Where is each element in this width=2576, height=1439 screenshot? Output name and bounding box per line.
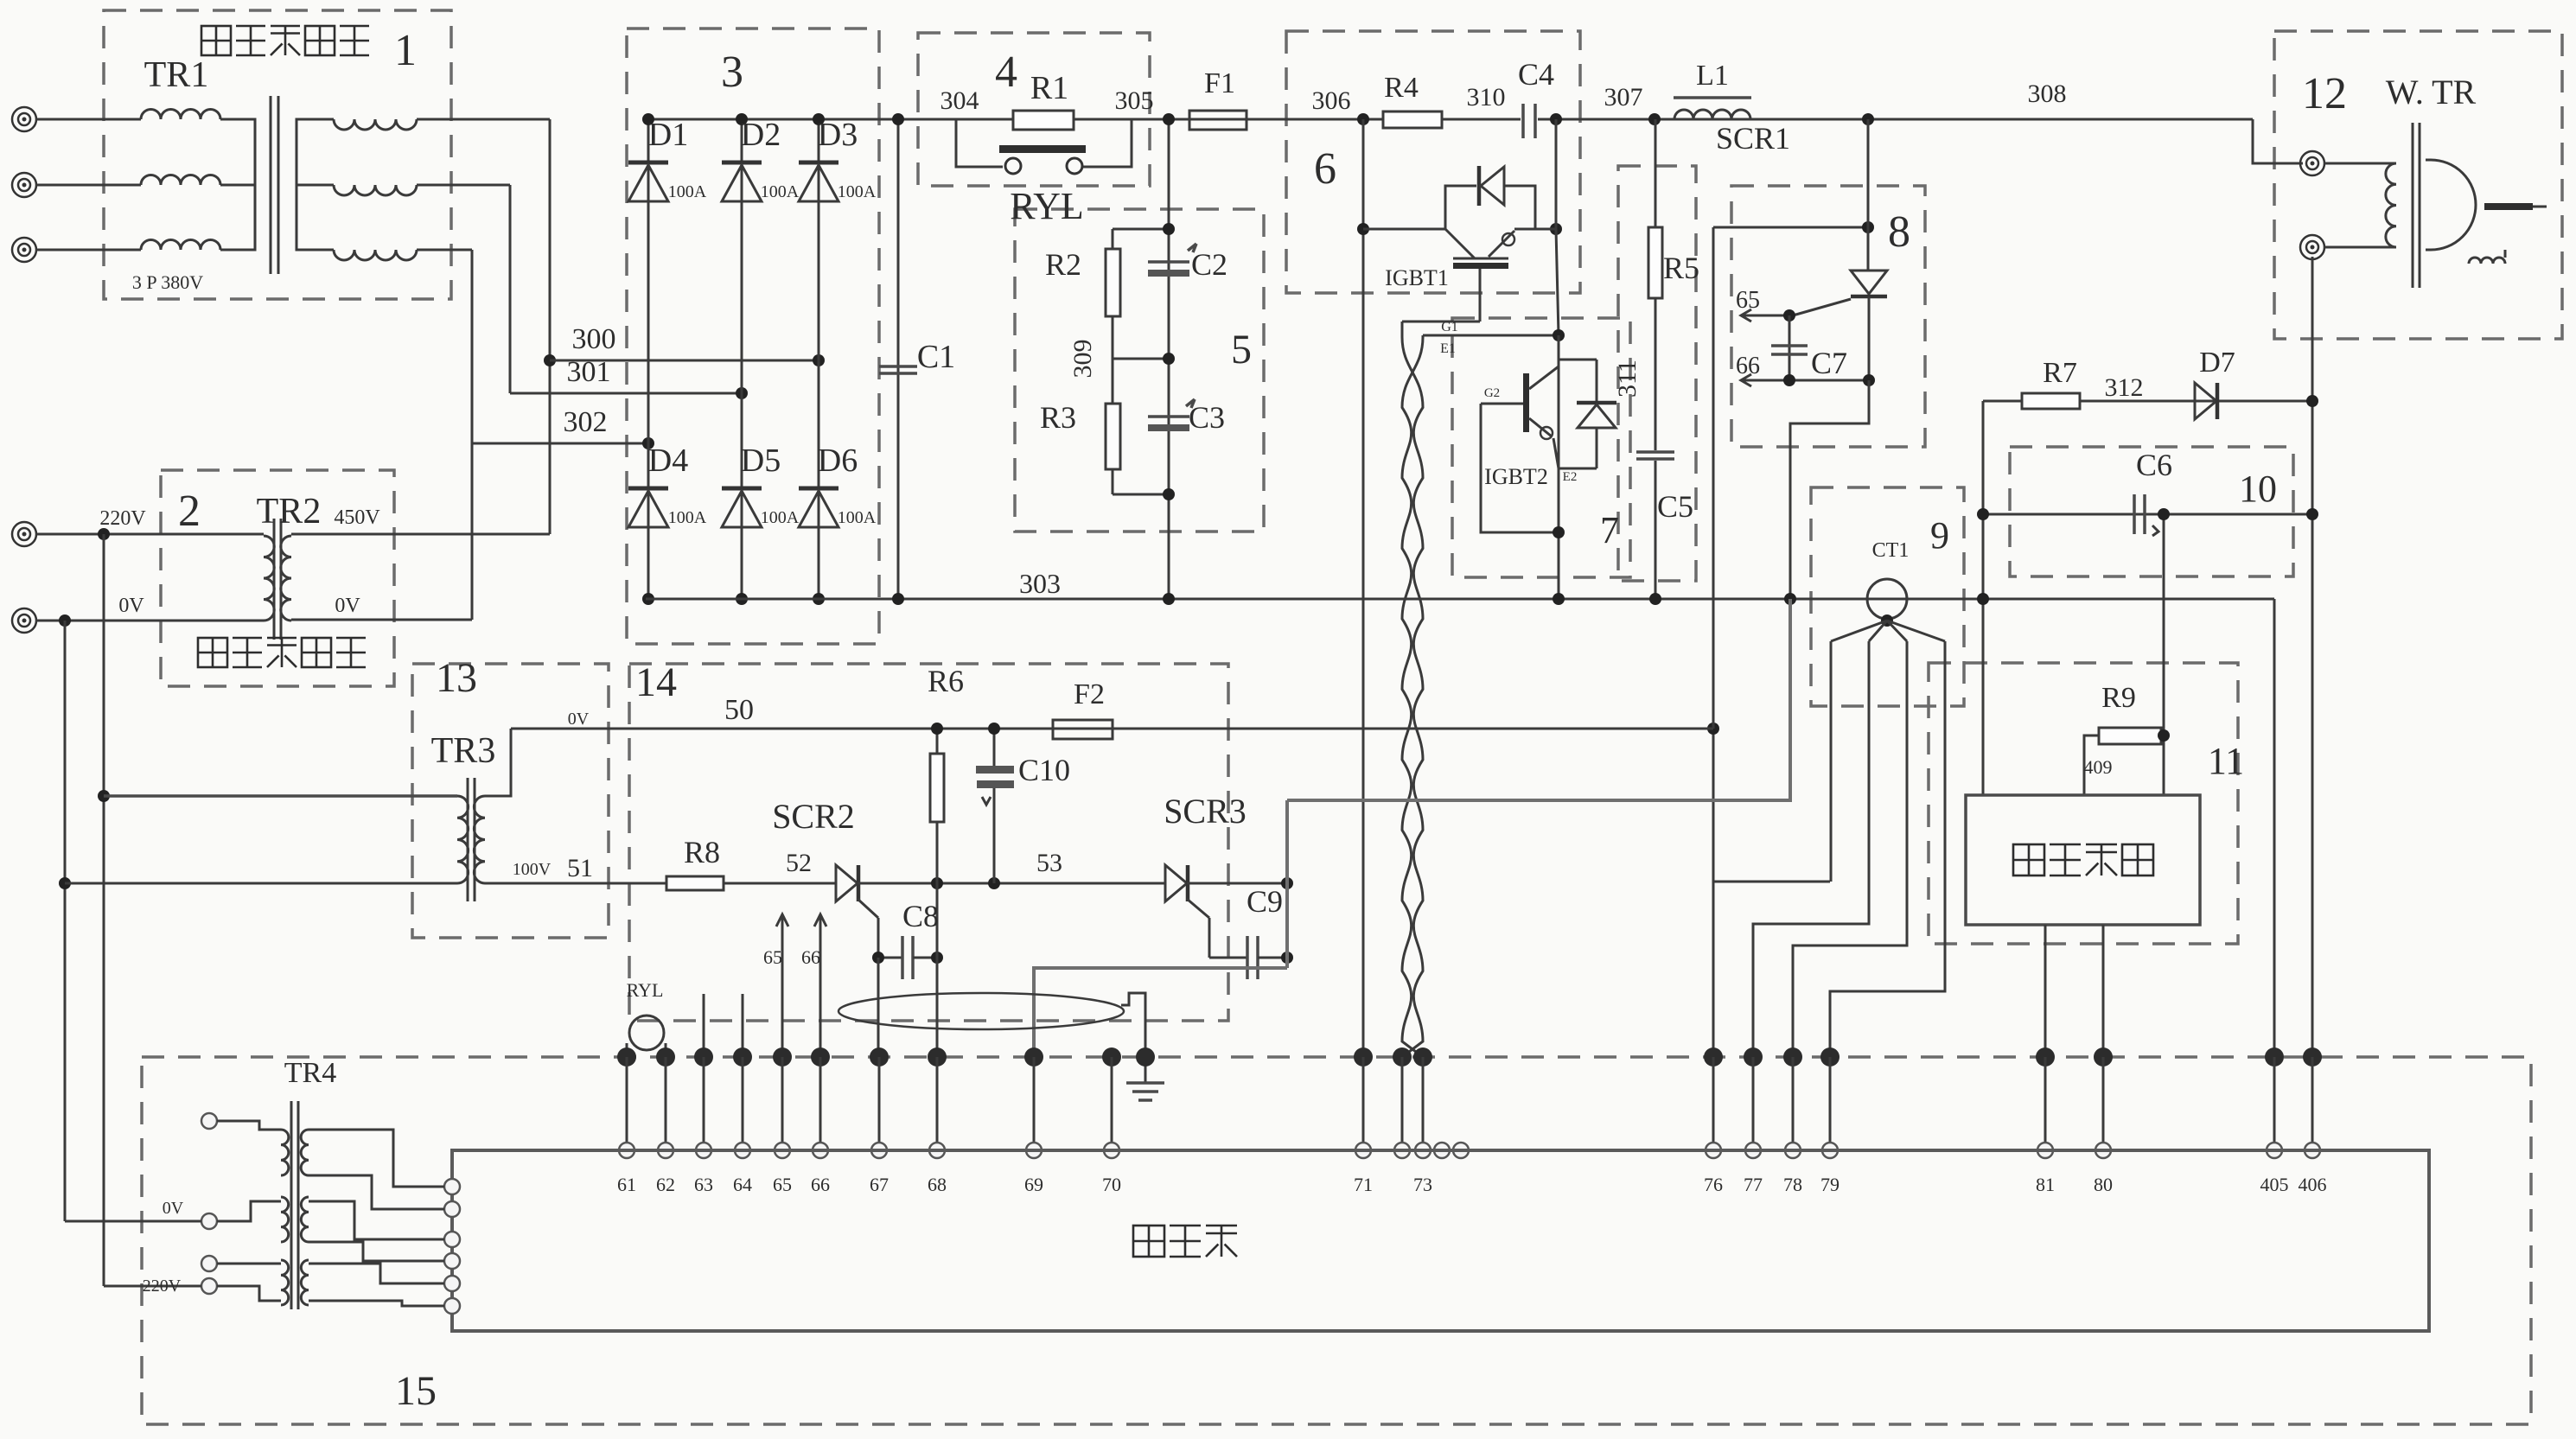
terminal circle x1196 (1026, 1143, 1042, 1158)
svg-text:7: 7 (1600, 509, 1619, 551)
wire terminal column x1196 (1033, 1057, 1036, 1150)
svg-text:307: 307 (1604, 83, 1643, 111)
svg-text:10: 10 (2239, 468, 2277, 510)
IGBT2 emitter lead (1553, 438, 1559, 468)
node 300 at D3 (813, 354, 825, 366)
connector dot x1982 (1704, 1047, 1723, 1067)
svg-text:63: 63 (694, 1174, 713, 1195)
wire regulator out 81 (2044, 925, 2047, 1057)
svg-text:4: 4 (995, 48, 1017, 97)
svg-text:71: 71 (1354, 1174, 1373, 1195)
resistor R4 (1383, 111, 1442, 128)
input terminal 0V (12, 608, 36, 633)
wire regulator out 80 (2102, 925, 2105, 1057)
capacitor C7 (1789, 315, 1791, 380)
node E1 (1553, 329, 1565, 341)
svg-text:C8: C8 (902, 899, 939, 933)
wire C9 left (1209, 957, 1247, 959)
IGBT1 gate lead (1479, 269, 1482, 322)
node C10 50 (988, 723, 1000, 735)
node C8 right (931, 952, 943, 964)
svg-text:0V: 0V (568, 710, 590, 729)
node IGBT2 gate loop (1553, 526, 1565, 538)
wire 220V input (36, 533, 264, 536)
svg-text:C9: C9 (1247, 884, 1283, 919)
label single-phase transformer (hanzi) (198, 638, 227, 667)
transformer TR1 core (270, 96, 272, 274)
wire TR1 secondary C out (417, 249, 472, 252)
wire 309 (1113, 358, 1169, 360)
svg-text:2: 2 (178, 487, 201, 536)
wire TR3 primary top (104, 794, 457, 798)
svg-text:RYL: RYL (627, 979, 664, 1001)
node D7 out (2306, 395, 2318, 407)
diode D1 column (647, 119, 650, 599)
connector dot x2366 (2036, 1047, 2055, 1067)
thyristor SCR1 (1851, 271, 1887, 294)
node 301 at D2 (736, 387, 748, 399)
box 5 divider capacitor unit (1015, 209, 1264, 532)
box 11 voltage regulation unit (1929, 663, 2238, 944)
svg-text:F2: F2 (1074, 678, 1105, 710)
connector dot x1646 (1413, 1047, 1432, 1067)
arrow 66 (1741, 374, 1751, 386)
box 3 rectifier bridge unit (627, 29, 879, 644)
wire TR4 sec lead 5 (309, 1264, 444, 1283)
resistor R8 (666, 876, 724, 890)
node C6 left (1977, 508, 1989, 520)
wire terminal column x2028 (1752, 1057, 1755, 1150)
wire terminal 76 column (1712, 729, 1715, 1057)
svg-text:62: 62 (656, 1174, 675, 1195)
svg-text:L1: L1 (1696, 60, 1729, 92)
svg-text:66: 66 (1736, 353, 1760, 379)
wire terminal column x1084 (936, 1057, 939, 1150)
wire C6 (1983, 513, 2312, 516)
connector dot x770 (656, 1047, 675, 1067)
resistor R5 column top (1655, 119, 1657, 227)
wire terminal column x725 (626, 1057, 628, 1150)
cable shield ellipse (838, 993, 1124, 1029)
transformer TR4 primary b (281, 1197, 289, 1242)
svg-text:RYL: RYL (1010, 185, 1084, 227)
svg-text:F1: F1 (1204, 67, 1235, 99)
wire 65 (1743, 315, 1789, 317)
wire terminal column x2675 (2311, 1057, 2314, 1150)
relay contact RYL terminal left (1005, 158, 1021, 174)
control board left terminal y1485 (444, 1276, 460, 1291)
svg-text:100A: 100A (761, 182, 800, 201)
capacitor C5 (1636, 450, 1674, 454)
transformer TR1 primary winding B (141, 175, 220, 186)
svg-text:100A: 100A (668, 508, 707, 527)
svg-text:0V: 0V (163, 1199, 184, 1218)
svg-text:310: 310 (1467, 83, 1506, 111)
resistor R9 (2099, 728, 2161, 744)
svg-text:100A: 100A (838, 508, 877, 527)
transformer TR1 primary winding A (141, 110, 220, 120)
capacitor C8 (901, 936, 904, 979)
svg-text:D1: D1 (648, 117, 688, 153)
transformer TR3 primary (457, 796, 469, 883)
regulator box (1966, 795, 2200, 925)
svg-text:406: 406 (2299, 1174, 2327, 1195)
svg-text:CT1: CT1 (1872, 539, 1910, 562)
resistor R2 (1112, 229, 1114, 249)
resistor R7 (2022, 393, 2080, 409)
svg-text:78: 78 (1783, 1174, 1802, 1195)
wire TR4 primary lead 2 (217, 1201, 281, 1221)
IGBT1 collector column (1555, 119, 1558, 229)
svg-text:302: 302 (564, 406, 608, 438)
capacitor C6 (2133, 494, 2136, 534)
wire TR3 0V jog (485, 729, 511, 796)
node 300 junction (544, 354, 556, 366)
connector dot x2028 (1744, 1047, 1763, 1067)
svg-text:0V: 0V (335, 595, 360, 617)
svg-text:C4: C4 (1518, 57, 1554, 92)
fuse F1 (1189, 111, 1247, 130)
svg-text:450V: 450V (334, 506, 380, 529)
svg-text:C7: C7 (1811, 346, 1847, 380)
node 66 C7 (1783, 374, 1795, 386)
wire terminal column x814 (703, 1057, 705, 1150)
node 65 (1783, 309, 1795, 322)
node D6 bottom bus (813, 593, 825, 605)
wire 0V to TR4 (65, 1220, 201, 1223)
svg-text:73: 73 (1413, 1174, 1432, 1195)
thyristor SCR1 column (1867, 119, 1870, 271)
relay contact RYL bar (999, 145, 1086, 153)
svg-text:E2: E2 (1563, 470, 1578, 484)
diode D6 (799, 487, 838, 491)
transformer TR4 primary a (281, 1130, 289, 1175)
transformer TR1 secondary winding A (334, 119, 417, 130)
wire 53 a (858, 882, 1165, 885)
svg-text:51: 51 (567, 854, 593, 882)
node C5 bus (1649, 593, 1661, 605)
connector dot x814 (694, 1047, 713, 1067)
wire 50 staircase to terminal 76 (1713, 881, 1830, 883)
wire R7 column (1982, 401, 1985, 795)
svg-text:11: 11 (2208, 740, 2244, 782)
wire IGBT1 collector rail (1363, 228, 1445, 231)
input terminal phase B (12, 173, 36, 197)
wire 302 (472, 443, 648, 445)
thyristor SCR2 (836, 865, 858, 901)
wire W.TR primary bottom (2324, 246, 2396, 249)
svg-text:14: 14 (635, 659, 677, 705)
svg-text:79: 79 (1820, 1174, 1840, 1195)
node 309 (1163, 353, 1175, 365)
input terminal phase C (12, 238, 36, 262)
svg-text:R2: R2 (1045, 247, 1081, 282)
wire W.TR primary top (2324, 162, 2396, 165)
wire top bus 310-307 (1538, 118, 2253, 121)
box 9 current transformer unit (1811, 487, 1964, 706)
terminal circle x2117 (1822, 1143, 1838, 1158)
connector dot x2433 (2094, 1047, 2113, 1067)
svg-text:3: 3 (721, 48, 743, 97)
connector dot x859 (733, 1047, 752, 1067)
wire terminal column x2433 (2102, 1057, 2105, 1150)
svg-text:405: 405 (2260, 1174, 2289, 1195)
svg-text:IGBT2: IGBT2 (1484, 464, 1548, 489)
svg-text:TR4: TR4 (284, 1057, 336, 1089)
node IGBT1 emitter rail (1550, 223, 1562, 235)
node 305 bus (1163, 113, 1175, 125)
wire bus 303 down to 405 (2273, 599, 2276, 1057)
wire TR4 primary lead 4 (217, 1286, 281, 1301)
TR4 primary terminal 4 (201, 1278, 217, 1294)
wire E2 (1559, 468, 1597, 470)
svg-text:R8: R8 (684, 835, 720, 869)
transformer TR2 primary (264, 536, 274, 621)
wire phase C to TR1 (36, 249, 141, 252)
control board left terminal y1399 (444, 1201, 460, 1217)
node R6 50 (931, 723, 943, 735)
wire R2 top (1113, 228, 1169, 231)
node D5 bottom bus (736, 593, 748, 605)
relay contact RYL terminal right (1067, 158, 1082, 174)
transformer TR1 primary winding C (141, 240, 220, 251)
svg-text:305: 305 (1115, 86, 1154, 115)
transformer TR4 core (290, 1101, 293, 1309)
svg-text:65: 65 (763, 946, 782, 968)
wire 220V to TR4 (104, 1285, 201, 1288)
connector dot x1286 (1102, 1047, 1121, 1067)
wire IGBT2 gate loop (1481, 404, 1559, 532)
SCR3 gate lead (1187, 899, 1209, 918)
wire terminal column x859 (742, 1057, 744, 1150)
svg-text:66: 66 (801, 946, 820, 968)
wire RYL right lead (665, 1043, 667, 1057)
node 53 end (1281, 877, 1293, 889)
IGBT1 freewheel diode loop (1445, 186, 1476, 229)
wire 66 arrow column (819, 916, 822, 1057)
svg-text:52: 52 (786, 849, 812, 877)
node R3 bottom (1163, 488, 1175, 500)
connector dot x2074 (1783, 1047, 1802, 1067)
TR4 primary terminal 2 (201, 1213, 217, 1229)
transformer W.TR core (2412, 123, 2414, 288)
polarity mark C10 (982, 797, 991, 805)
wire 50 (511, 728, 1713, 730)
wire staircase to 69 (1034, 968, 1287, 1057)
SCR1 cathode lead (1868, 296, 1871, 380)
svg-text:300: 300 (572, 323, 616, 355)
wire 66 (1743, 379, 1869, 382)
wire terminal column x2366 (2044, 1057, 2047, 1150)
diode D2 column (741, 119, 743, 599)
node 306 (1357, 113, 1369, 125)
wire W.TR sense column (2311, 257, 2314, 1057)
wire terminal 67 column (877, 958, 880, 1057)
svg-text:64: 64 (733, 1174, 752, 1195)
transformer TR2 secondary (281, 536, 291, 621)
node C3 column bottom (1163, 593, 1175, 605)
box 6 IGBT1 unit (1286, 31, 1580, 293)
terminal circle x1017 (871, 1143, 887, 1158)
wire CT1 lead3 (1793, 641, 1907, 1057)
node R9 top C6 (2158, 508, 2170, 520)
TR4 primary terminal 1 (201, 1113, 217, 1129)
svg-text:15: 15 (395, 1368, 437, 1414)
wire 0V feeder column (64, 621, 67, 1221)
svg-text:5: 5 (1231, 327, 1252, 372)
svg-text:312: 312 (2105, 373, 2144, 402)
wire node 302 feeder (471, 250, 474, 620)
svg-text:301: 301 (567, 356, 611, 388)
svg-text:D4: D4 (648, 443, 688, 479)
wire TR4 sec lead 4 (309, 1242, 444, 1261)
terminal circle x2366 (2037, 1143, 2053, 1158)
label regulation control (hanzi) (2013, 844, 2044, 875)
node R6 53 (931, 877, 943, 889)
box 8 SCR1 unit (1731, 186, 1925, 447)
wire TR1 secondary B out (417, 184, 510, 187)
node TR3 primary top (98, 790, 110, 802)
svg-text:13: 13 (436, 655, 477, 701)
svg-text:6: 6 (1314, 144, 1336, 194)
input terminal phase A (12, 107, 36, 131)
wire CT1 lead1 (1830, 641, 1833, 882)
node SCR1 bus (1862, 113, 1874, 125)
wire stub t63 (703, 994, 705, 1057)
svg-text:65: 65 (773, 1174, 792, 1195)
IGBT2 base wire (1481, 403, 1523, 405)
svg-text:69: 69 (1024, 1174, 1043, 1195)
wire 52 (724, 882, 836, 885)
svg-text:53: 53 (1036, 849, 1062, 877)
svg-text:IGBT1: IGBT1 (1385, 265, 1449, 290)
box R5 C5 snubber unit (1618, 166, 1696, 581)
terminal circle x1668 (1434, 1143, 1450, 1158)
SCR2 gate lead (858, 899, 878, 918)
svg-text:304: 304 (940, 86, 979, 115)
svg-text:R7: R7 (2043, 357, 2077, 389)
wire G1 (1402, 321, 1480, 323)
wire terminal column x1286 (1111, 1057, 1113, 1150)
relay coil RYL (629, 1016, 664, 1050)
wire SCR1 cathode exit (1790, 380, 1869, 598)
terminal circle x2433 (2095, 1143, 2111, 1158)
box 1 three-phase transformer unit (104, 10, 451, 299)
wire terminal column x1646 (1422, 1057, 1425, 1150)
IGBT1 emitter column (1556, 229, 1559, 335)
diode D3 column (818, 119, 820, 599)
connector dot x1196 (1024, 1047, 1043, 1067)
node 302 at D1 (642, 437, 654, 449)
svg-text:303: 303 (1019, 568, 1061, 599)
svg-text:R9: R9 (2101, 682, 2136, 714)
node 305 column (1168, 119, 1170, 599)
svg-text:65: 65 (1736, 287, 1760, 314)
svg-text:C1: C1 (917, 339, 955, 375)
svg-text:SCR1: SCR1 (1716, 121, 1790, 156)
wire terminal column x1017 (878, 1057, 881, 1150)
diode D2 (722, 161, 762, 165)
svg-text:68: 68 (928, 1174, 947, 1195)
terminal W.TR bottom (2300, 235, 2324, 259)
wire 300 (550, 360, 819, 362)
wire box8 rail column (1712, 227, 1715, 729)
box 14 trigger unit (629, 664, 1228, 1021)
wire R7 D7 312 (1983, 400, 2312, 403)
svg-text:D3: D3 (818, 117, 858, 153)
terminal circle x905 (775, 1143, 790, 1158)
wire top bus 304-305 (646, 118, 1521, 121)
connector dot x949 (811, 1047, 830, 1067)
diode D7 (2195, 383, 2216, 419)
connector dot x725 (617, 1047, 636, 1067)
IGBT2 freewheel diode (1596, 360, 1598, 401)
svg-text:80: 80 (2094, 1174, 2113, 1195)
control board left terminal y1373 (444, 1179, 460, 1194)
node SCR1 top (1862, 221, 1874, 233)
svg-text:9: 9 (1930, 514, 1949, 557)
connector dot x905 (773, 1047, 792, 1067)
node C4 right (1550, 113, 1562, 125)
svg-text:R4: R4 (1384, 72, 1419, 104)
arrow 65 (1741, 309, 1751, 322)
wire R5 to C5 (1655, 298, 1657, 450)
resistor R6 (936, 729, 939, 754)
wire TR3 primary bottom (65, 882, 457, 885)
node D2 top bus (736, 113, 748, 125)
polarity mark C2 (1188, 244, 1196, 251)
svg-text:TR1: TR1 (144, 55, 209, 95)
wire terminal column x2631 (2273, 1057, 2276, 1150)
svg-text:50: 50 (724, 694, 754, 726)
node TR3 primary bottom (59, 877, 71, 889)
resistor R3 (1112, 359, 1114, 404)
terminal circle x814 (696, 1143, 711, 1158)
svg-text:C3: C3 (1189, 400, 1225, 435)
wire TR4 sec lead 2 (309, 1175, 444, 1209)
wire TR1 secondary star bus (296, 119, 334, 250)
connector dot x1622 (1393, 1047, 1412, 1067)
terminal circle x2675 (2305, 1143, 2320, 1158)
wire C8 left (878, 957, 902, 959)
svg-text:D7: D7 (2199, 347, 2235, 379)
svg-text:306: 306 (1312, 86, 1351, 115)
wire staircase to bus (1287, 599, 1790, 800)
wire 53 b (1187, 882, 1287, 885)
CT1 fan leads (1831, 621, 1887, 641)
terminal circle x1577 (1355, 1143, 1371, 1158)
box 4 soft-start relay unit (918, 33, 1150, 186)
terminal circle x1646 (1415, 1143, 1431, 1158)
wire R3 bottom (1113, 493, 1169, 496)
svg-text:D5: D5 (741, 443, 781, 479)
wire TR2 450V out (291, 533, 550, 536)
wire 51 (485, 882, 666, 885)
wire terminal column x949 (819, 1057, 822, 1150)
IGBT1 freewheel diode (1477, 166, 1482, 206)
box 7 IGBT2 unit (1452, 318, 1630, 577)
wire TR4 sec lead 3 (309, 1201, 444, 1239)
capacitor C4 (1521, 104, 1525, 138)
svg-text:D2: D2 (741, 117, 781, 153)
wire C5 to bus (1655, 461, 1657, 599)
terminal circle x1622 (1394, 1143, 1410, 1158)
svg-text:C2: C2 (1191, 247, 1227, 282)
control board left terminal y1459 (444, 1253, 460, 1269)
resistor R5 (1648, 227, 1662, 298)
svg-text:66: 66 (811, 1174, 830, 1195)
label control board (hanzi) (1133, 1226, 1164, 1257)
